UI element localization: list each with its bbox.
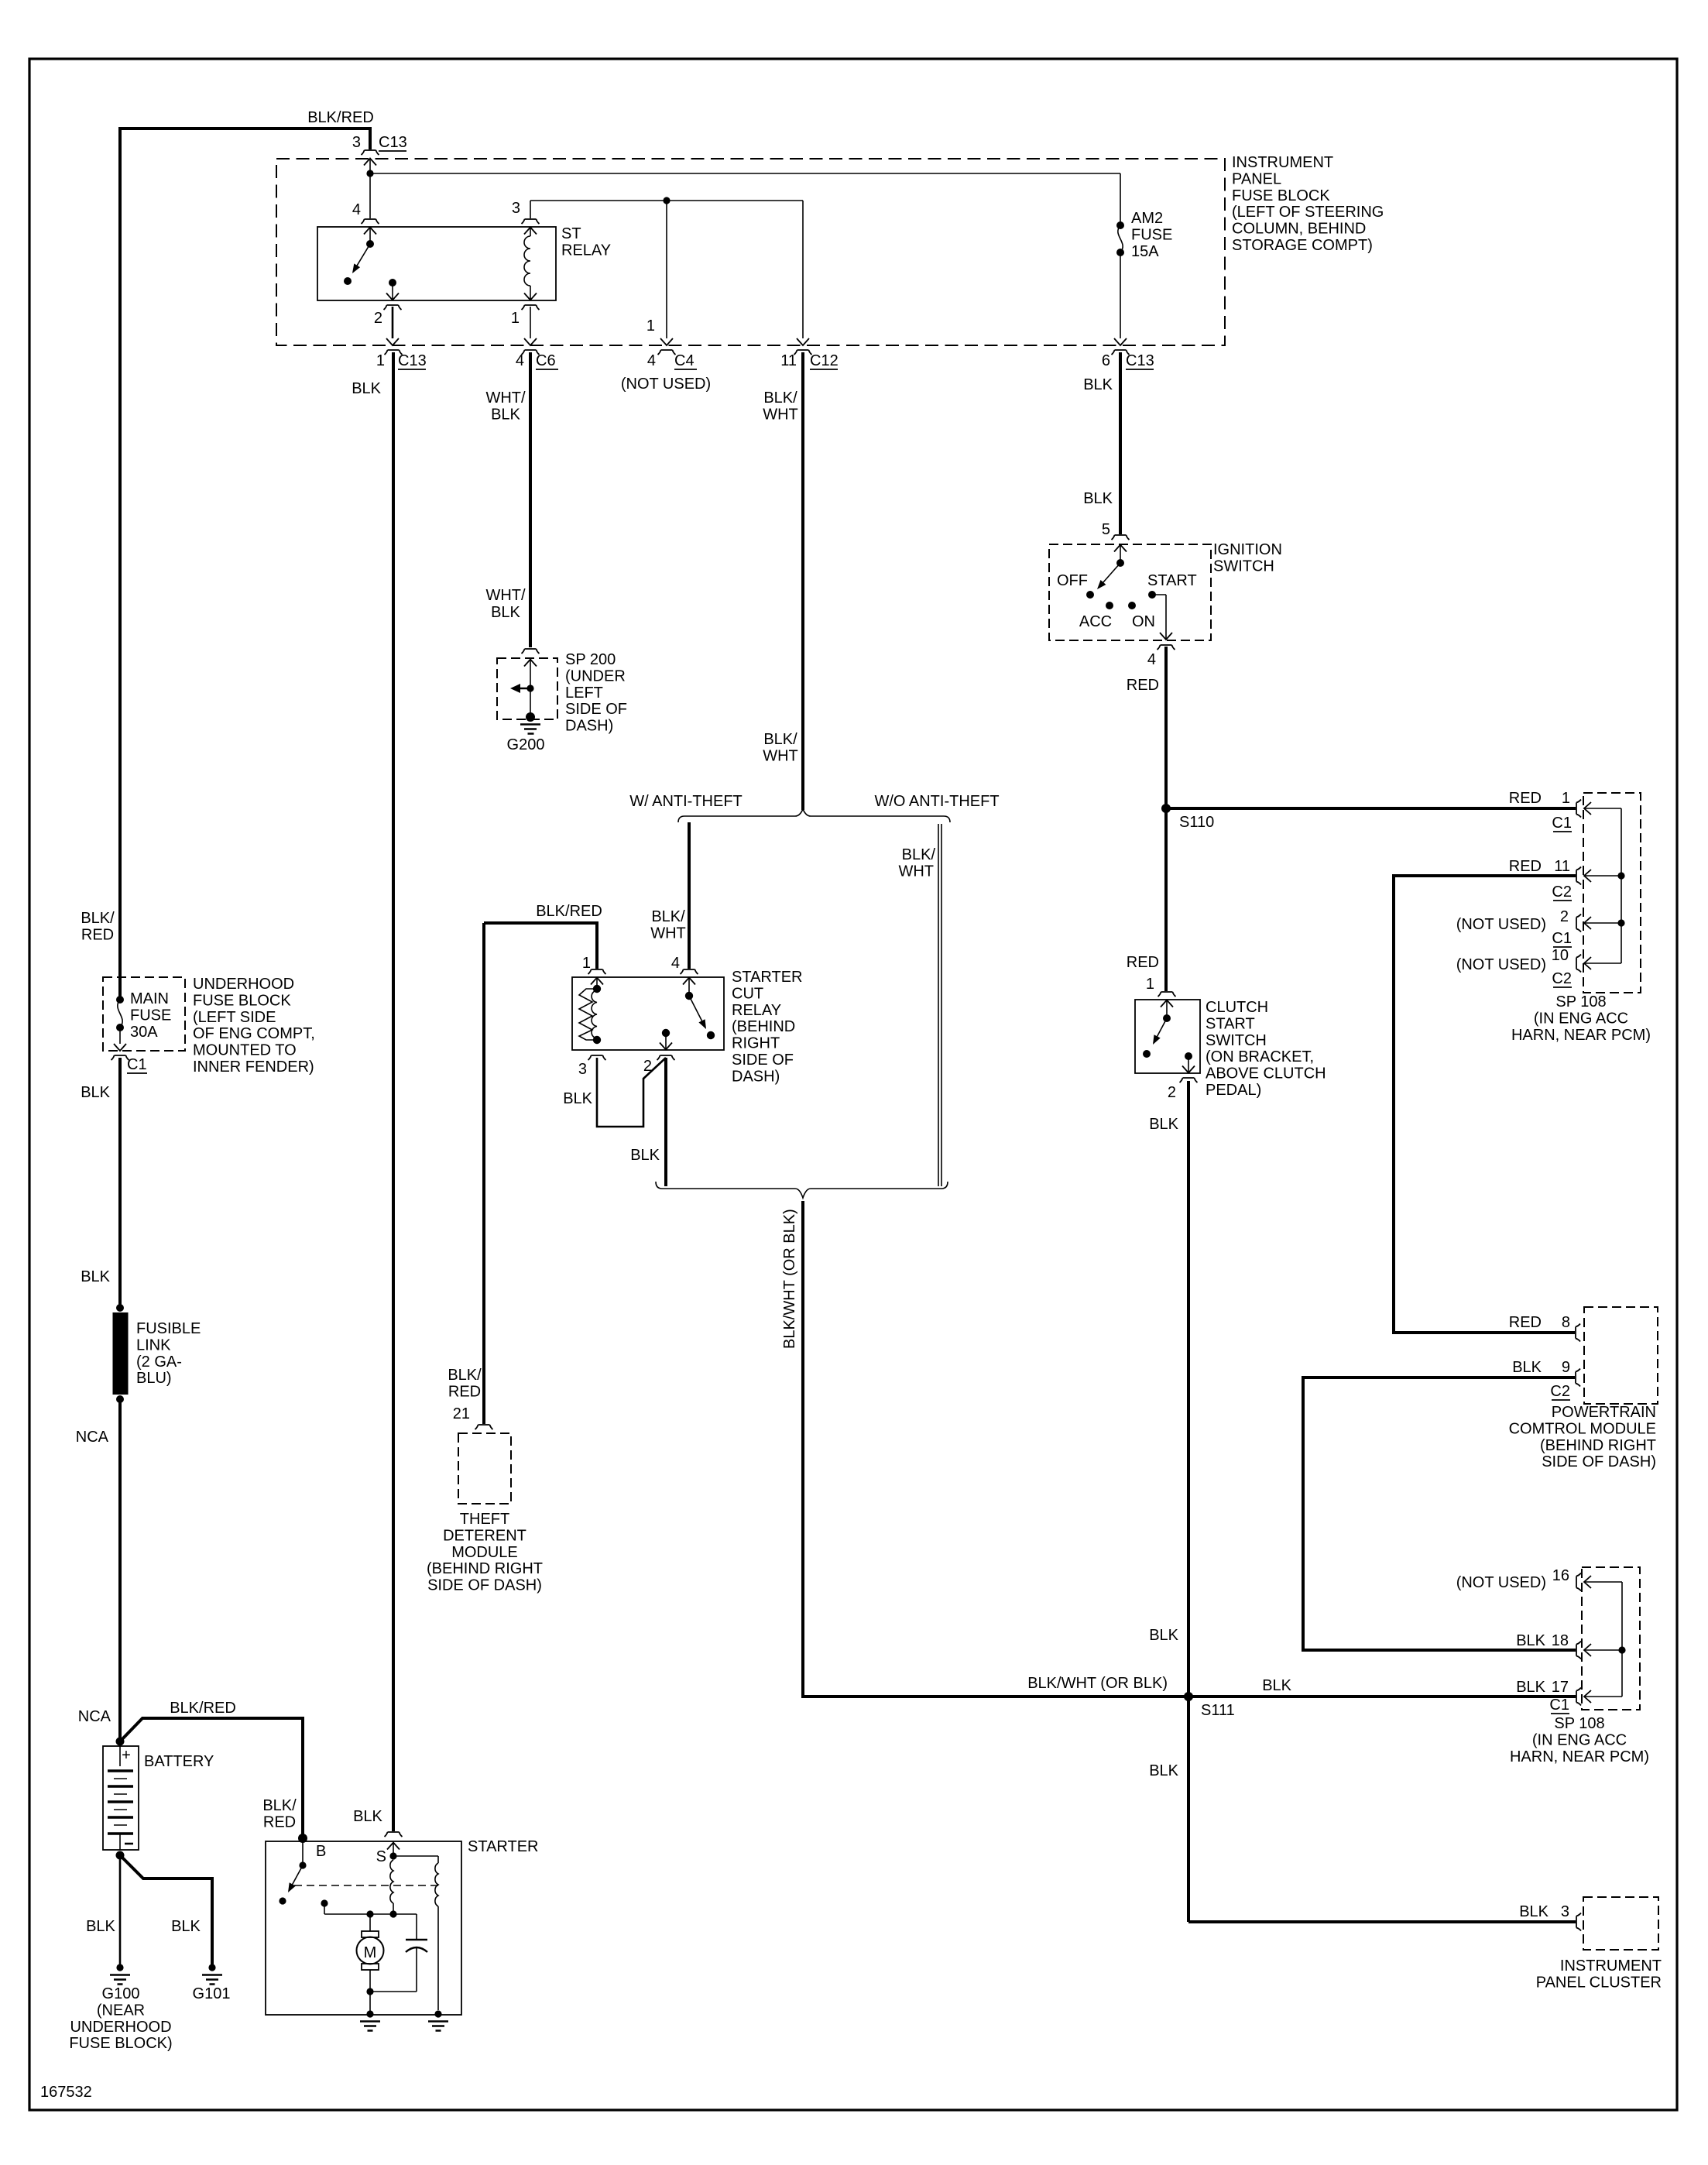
svg-text:16: 16 [1552,1567,1569,1584]
svg-text:RED: RED [1509,790,1542,807]
svg-text:S110: S110 [1179,814,1214,831]
svg-text:AM2: AM2 [1131,210,1163,227]
svg-text:FUSIBLE: FUSIBLE [136,1320,201,1337]
svg-text:DASH): DASH) [732,1068,780,1085]
svg-text:C2: C2 [1552,970,1572,987]
svg-text:11: 11 [1554,858,1570,875]
svg-text:(LEFT SIDE: (LEFT SIDE [193,1009,276,1026]
svg-text:C13: C13 [398,352,427,369]
svg-text:WHT/: WHT/ [485,389,526,407]
svg-text:1: 1 [376,352,385,369]
svg-text:RED: RED [1509,858,1542,875]
svg-text:BLK: BLK [86,1918,115,1935]
svg-text:PANEL CLUSTER: PANEL CLUSTER [1536,1974,1662,1991]
svg-text:C2: C2 [1552,883,1572,901]
svg-text:CUT: CUT [732,985,763,1002]
svg-text:WHT: WHT [650,925,686,942]
svg-text:(BEHIND RIGHT: (BEHIND RIGHT [1540,1437,1656,1454]
svg-text:ON: ON [1132,613,1155,630]
svg-text:FUSE: FUSE [1131,226,1172,243]
svg-text:C2: C2 [1550,1383,1570,1400]
svg-text:4: 4 [647,352,656,369]
svg-text:BLK: BLK [1516,1679,1545,1696]
svg-text:G101: G101 [193,1985,231,2002]
svg-text:WHT: WHT [763,406,798,423]
svg-text:UNDERHOOD: UNDERHOOD [193,976,294,993]
svg-text:BLK: BLK [1149,1762,1178,1779]
svg-text:COLUMN, BEHIND: COLUMN, BEHIND [1232,221,1366,238]
svg-text:9: 9 [1562,1359,1570,1376]
svg-text:18: 18 [1552,1632,1569,1649]
svg-text:STORAGE COMPT): STORAGE COMPT) [1232,237,1373,254]
svg-text:4: 4 [671,955,680,972]
svg-text:BLK: BLK [1083,376,1113,393]
svg-text:2: 2 [1560,908,1569,925]
svg-text:SIDE OF: SIDE OF [732,1052,794,1069]
svg-text:BLK/RED: BLK/RED [536,903,602,920]
svg-text:ABOVE CLUTCH: ABOVE CLUTCH [1206,1065,1326,1082]
svg-text:21: 21 [453,1405,470,1422]
svg-text:C1: C1 [1552,930,1572,947]
svg-text:C1: C1 [127,1056,147,1073]
svg-text:BATTERY: BATTERY [144,1753,214,1770]
svg-text:BLK/RED: BLK/RED [170,1700,236,1717]
svg-text:BLK: BLK [1262,1677,1291,1694]
svg-text:RED: RED [1127,954,1159,971]
svg-text:SWITCH: SWITCH [1206,1032,1267,1049]
svg-text:1: 1 [1562,790,1570,807]
svg-text:BLK/WHT (OR BLK): BLK/WHT (OR BLK) [1027,1675,1168,1692]
svg-text:15A: 15A [1131,243,1159,260]
svg-text:BLK: BLK [1519,1903,1549,1920]
svg-text:(NEAR: (NEAR [97,2002,145,2019]
svg-text:C6: C6 [536,352,556,369]
svg-text:4: 4 [516,352,524,369]
svg-text:W/O ANTI-THEFT: W/O ANTI-THEFT [874,793,999,810]
svg-text:INNER FENDER): INNER FENDER) [193,1058,314,1076]
svg-text:3: 3 [578,1061,587,1078]
svg-text:5: 5 [1102,521,1110,538]
svg-text:2: 2 [374,310,382,327]
svg-text:COMTROL MODULE: COMTROL MODULE [1509,1420,1656,1437]
svg-text:10: 10 [1552,947,1569,964]
svg-text:2: 2 [1168,1084,1176,1101]
svg-text:1: 1 [511,310,520,327]
svg-text:(ON BRACKET,: (ON BRACKET, [1206,1048,1314,1065]
svg-text:M: M [364,1944,377,1961]
svg-text:RIGHT: RIGHT [732,1035,780,1052]
svg-text:BLK: BLK [491,406,520,423]
svg-text:(BEHIND RIGHT: (BEHIND RIGHT [427,1560,543,1577]
svg-text:BLK: BLK [491,604,520,621]
svg-text:BLK: BLK [1149,1627,1178,1644]
svg-text:IGNITION: IGNITION [1213,541,1282,558]
svg-text:START: START [1147,572,1197,589]
svg-text:INSTRUMENT: INSTRUMENT [1560,1957,1662,1975]
svg-text:C1: C1 [1549,1697,1569,1714]
svg-text:WHT/: WHT/ [485,587,526,604]
svg-text:WHT: WHT [763,747,798,764]
svg-text:W/ ANTI-THEFT: W/ ANTI-THEFT [629,793,743,810]
svg-text:1: 1 [582,955,591,972]
svg-text:1: 1 [647,317,655,335]
svg-text:SWITCH: SWITCH [1213,558,1274,575]
svg-text:1: 1 [1146,976,1154,993]
svg-text:SP 108: SP 108 [1555,993,1606,1010]
svg-text:NCA: NCA [78,1708,111,1725]
svg-text:LINK: LINK [136,1336,171,1354]
svg-text:RED: RED [448,1383,481,1400]
svg-text:RELAY: RELAY [732,1002,781,1019]
svg-text:B: B [316,1843,326,1860]
svg-text:3: 3 [1561,1903,1569,1920]
svg-text:BLK: BLK [563,1090,592,1107]
svg-text:(NOT USED): (NOT USED) [621,376,711,393]
svg-text:BLK/: BLK/ [902,846,936,863]
svg-text:(2 GA-: (2 GA- [136,1354,182,1371]
svg-text:(IN ENG ACC: (IN ENG ACC [1534,1010,1628,1027]
svg-text:(UNDER: (UNDER [565,667,626,684]
svg-text:BLK: BLK [81,1268,110,1285]
svg-text:BLK: BLK [630,1147,660,1164]
svg-text:BLK: BLK [1516,1632,1545,1649]
svg-text:S: S [376,1848,386,1865]
svg-text:NCA: NCA [76,1429,109,1446]
svg-text:OF ENG COMPT,: OF ENG COMPT, [193,1025,315,1042]
svg-text:HARN, NEAR PCM): HARN, NEAR PCM) [1510,1748,1649,1765]
svg-text:SIDE OF DASH): SIDE OF DASH) [1542,1453,1656,1470]
svg-text:4: 4 [1147,651,1156,668]
svg-text:(NOT USED): (NOT USED) [1456,916,1546,933]
svg-text:FUSE BLOCK: FUSE BLOCK [193,992,291,1009]
svg-text:START: START [1206,1015,1255,1032]
svg-text:C13: C13 [1126,352,1154,369]
svg-text:4: 4 [352,201,361,218]
svg-text:S111: S111 [1201,1702,1235,1719]
svg-text:STARTER: STARTER [468,1838,539,1855]
svg-text:BLK/: BLK/ [448,1367,482,1384]
svg-text:17: 17 [1552,1679,1569,1696]
svg-text:WHT: WHT [898,863,934,880]
svg-text:MAIN: MAIN [130,990,169,1007]
svg-text:C13: C13 [379,134,407,151]
svg-text:BLU): BLU) [136,1370,172,1387]
svg-text:HARN, NEAR PCM): HARN, NEAR PCM) [1511,1027,1651,1044]
svg-text:8: 8 [1562,1314,1570,1331]
svg-text:BLK: BLK [1149,1116,1178,1133]
svg-text:BLK: BLK [81,1084,110,1101]
svg-text:C1: C1 [1552,815,1572,832]
svg-text:RELAY: RELAY [561,242,611,259]
svg-text:G100: G100 [102,1985,140,2002]
svg-text:BLK/: BLK/ [262,1797,297,1814]
svg-text:RED: RED [263,1813,296,1830]
svg-text:STARTER: STARTER [732,969,803,986]
svg-text:LEFT: LEFT [565,684,603,702]
svg-text:CLUTCH: CLUTCH [1206,999,1268,1016]
svg-text:OFF: OFF [1057,572,1088,589]
svg-text:6: 6 [1102,352,1110,369]
svg-text:BLK/: BLK/ [81,910,115,927]
svg-text:ACC: ACC [1079,613,1112,630]
svg-text:+: + [122,1747,131,1764]
svg-text:THEFT: THEFT [460,1511,509,1528]
svg-text:BLK/RED: BLK/RED [307,109,374,126]
svg-text:BLK: BLK [352,380,381,397]
svg-text:DASH): DASH) [565,718,613,735]
svg-text:INSTRUMENT: INSTRUMENT [1232,154,1333,171]
svg-text:PEDAL): PEDAL) [1206,1082,1261,1099]
svg-text:POWERTRAIN: POWERTRAIN [1552,1404,1656,1421]
svg-text:(LEFT OF STEERING: (LEFT OF STEERING [1232,204,1384,221]
svg-text:BLK: BLK [171,1918,201,1935]
svg-text:SP 108: SP 108 [1554,1715,1604,1732]
svg-text:SP 200: SP 200 [565,651,616,668]
svg-text:167532: 167532 [40,2084,92,2101]
svg-text:RED: RED [1127,677,1159,694]
svg-text:BLK/: BLK/ [763,731,797,748]
svg-text:C4: C4 [674,352,695,369]
svg-text:BLK/WHT (OR BLK): BLK/WHT (OR BLK) [781,1209,798,1349]
svg-text:BLK: BLK [353,1808,382,1825]
svg-text:MOUNTED TO: MOUNTED TO [193,1042,297,1059]
svg-text:BLK/: BLK/ [651,908,685,925]
svg-text:FUSE: FUSE [130,1007,171,1024]
svg-text:(BEHIND: (BEHIND [732,1018,795,1035]
svg-text:FUSE BLOCK: FUSE BLOCK [1232,187,1330,204]
svg-text:SIDE OF: SIDE OF [565,701,627,718]
svg-text:DETERENT: DETERENT [443,1527,526,1544]
svg-text:ST: ST [561,225,581,242]
svg-text:BLK: BLK [1512,1359,1542,1376]
svg-text:FUSE BLOCK): FUSE BLOCK) [69,2035,172,2052]
svg-text:BLK: BLK [1083,490,1113,507]
svg-text:30A: 30A [130,1024,158,1041]
svg-text:C12: C12 [810,352,839,369]
svg-text:11: 11 [780,352,797,369]
svg-text:3: 3 [512,200,520,217]
svg-text:RED: RED [1509,1314,1542,1331]
svg-text:(IN ENG ACC: (IN ENG ACC [1532,1731,1627,1748]
svg-text:RED: RED [81,926,114,943]
svg-text:MODULE: MODULE [451,1544,518,1561]
svg-text:SIDE OF DASH): SIDE OF DASH) [427,1577,542,1594]
svg-text:(NOT USED): (NOT USED) [1456,1574,1546,1591]
svg-text:BLK/: BLK/ [763,389,797,407]
svg-text:PANEL: PANEL [1232,170,1281,187]
svg-text:3: 3 [352,134,361,151]
svg-text:G200: G200 [507,736,545,753]
svg-text:UNDERHOOD: UNDERHOOD [70,2019,171,2036]
svg-text:(NOT USED): (NOT USED) [1456,956,1546,973]
